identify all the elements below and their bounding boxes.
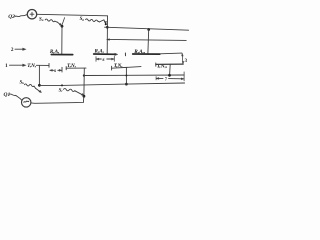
svg-text:Sb: Sb	[80, 17, 85, 22]
wire L5 horizontal	[39, 83, 184, 85]
svg-text:Sa: Sa	[39, 17, 44, 22]
electrode segment 1	[36, 64, 49, 66]
dimension s between segment1 and tick	[50, 69, 61, 71]
node C junction dot on L2	[147, 28, 150, 31]
junction dot on L4 right	[168, 74, 171, 77]
junction dot on L5 column3	[125, 83, 128, 86]
plate R2 thick bar	[94, 53, 115, 55]
resistor Sa squiggle	[45, 19, 57, 22]
svg-text:2: 2	[11, 47, 14, 53]
tick at right end of L4 and dim 7	[183, 72, 185, 81]
dimension 3 vertical at right edge	[181, 54, 184, 64]
wire vertical from segment4 down to L4	[169, 64, 172, 75]
source circle U-top with +	[27, 10, 36, 19]
tick at left end of segment 3	[111, 66, 113, 70]
node L5 left terminus dot	[38, 84, 41, 87]
resistor Sb squiggle	[86, 19, 100, 22]
switch arrow Sk	[36, 88, 41, 92]
arrowhead at left end of L2b	[107, 39, 110, 41]
wire L1 top horizontal	[37, 14, 108, 16]
svg-text:Q2: Q2	[8, 14, 15, 20]
dimension s below R2	[96, 56, 114, 61]
electrode segment 4	[156, 63, 183, 65]
wire vertical column 2 from L1 down to R2 plate	[106, 16, 108, 54]
plate R3 thick bar	[133, 53, 160, 55]
wire L2 horizontal	[105, 27, 189, 30]
node L4 start junction dot	[83, 74, 85, 76]
arrowhead at right end of R2 bar	[115, 53, 118, 56]
wire squiggly lead from Q1 to source circle 2	[10, 94, 22, 100]
electrode segment 3	[112, 67, 141, 69]
svg-text:Q1: Q1	[4, 92, 11, 98]
node B junction dot on L2	[106, 26, 109, 29]
wire vertical from segment3 down to L5	[125, 68, 127, 85]
tick at left end of segment 2	[65, 67, 67, 70]
source circle U-bottom with tilde	[22, 98, 31, 107]
switch blade from L1 to node A	[62, 18, 64, 25]
tick mark right of R2 bar	[124, 53, 126, 56]
tick at left end of segment 4	[155, 63, 157, 66]
dimension 7 below L4 right	[155, 77, 157, 80]
svg-text:Sr: Sr	[59, 88, 64, 93]
wire vertical node A down to R1 plate	[61, 26, 63, 54]
switch arrow Sa onto node	[57, 22, 61, 25]
tick at right end of segment 1	[48, 63, 50, 67]
wire L6 bottom from source to riser	[31, 96, 84, 103]
svg-text:T,N,: T,N,	[27, 63, 36, 69]
wire vertical column 4 from segment2 down to bottom node	[83, 68, 85, 96]
electrode segment 2	[66, 67, 86, 69]
resistor Sk squiggle	[24, 84, 35, 88]
resistor Sr squiggle	[64, 89, 76, 92]
switch arrow Sb onto column 2	[100, 20, 106, 23]
wire vertical column 3 from L2 down to R3 plate	[147, 30, 150, 54]
wire thin extension of R3 bar to right edge	[160, 52, 182, 55]
wire L2b horizontal	[107, 39, 186, 40]
wire squiggly lead from Q2 to source circle	[15, 15, 27, 17]
svg-text:s: s	[53, 68, 56, 74]
junction dot on L4 column3	[125, 74, 127, 76]
wire L4 horizontal	[84, 74, 184, 77]
svg-text:Sk: Sk	[20, 80, 25, 85]
tick right end of dimension s	[61, 67, 63, 72]
svg-text:1: 1	[5, 63, 8, 69]
switch arrow Sr onto bottom node	[76, 91, 84, 95]
plate R1 thick bar	[51, 54, 72, 56]
svg-text:s: s	[101, 57, 104, 63]
wire vertical from segment row down to L5	[38, 65, 40, 85]
bottom node junction dot	[83, 95, 86, 98]
node A junction dot	[61, 25, 64, 28]
junction dot on L5 at x62	[61, 84, 63, 86]
